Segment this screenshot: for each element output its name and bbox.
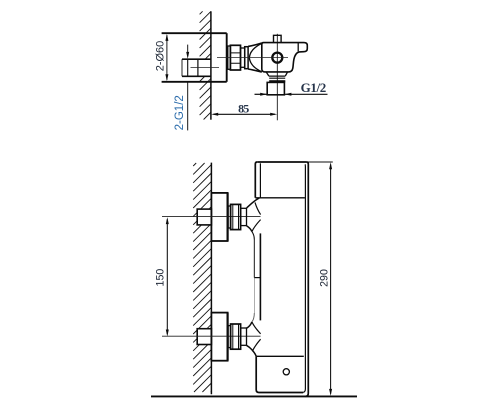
svg-text:G1/2: G1/2 (301, 80, 326, 95)
svg-text:85: 85 (238, 101, 249, 115)
svg-text:290: 290 (319, 269, 331, 287)
svg-text:150: 150 (154, 269, 166, 287)
svg-text:2-Ø60: 2-Ø60 (155, 41, 167, 72)
svg-text:2-G1/2: 2-G1/2 (174, 95, 186, 130)
